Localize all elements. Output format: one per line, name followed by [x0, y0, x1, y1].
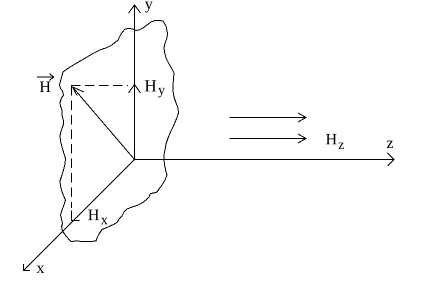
label Hx - sub x: [101, 218, 108, 224]
label y (axis): [145, 2, 153, 13]
dashed projection line horizontal (tip to y-axis): [71, 85, 128, 87]
label Hy - sub y: [158, 88, 165, 97]
Hy arrowhead on y-axis: [129, 85, 141, 94]
dashed projection line vertical (tip to x-axis): [71, 86, 73, 208]
label z (axis): [387, 141, 393, 148]
z-axis: [135, 159, 394, 161]
z-axis arrowhead: [388, 153, 395, 166]
label H (vector): [40, 82, 51, 92]
label Hz - sub z: [338, 143, 343, 149]
label Hx - H: [88, 210, 99, 220]
vector H arrowhead: [73, 87, 85, 96]
blob (material outline): [60, 21, 179, 242]
y-axis: [134, 5, 136, 160]
label Hy - H: [145, 80, 156, 91]
label Hz - H: [326, 134, 337, 144]
label x (axis): [37, 266, 45, 273]
field arrow 2: [230, 138, 306, 140]
y-axis arrowhead: [129, 5, 141, 13]
x-axis: [24, 160, 135, 271]
Hx arrowhead on x-axis: [72, 211, 80, 221]
H label overbar arrow: [37, 76, 54, 78]
x-axis arrowhead: [24, 264, 31, 271]
field arrow 1: [230, 117, 306, 119]
vector H shaft: [73, 87, 135, 160]
